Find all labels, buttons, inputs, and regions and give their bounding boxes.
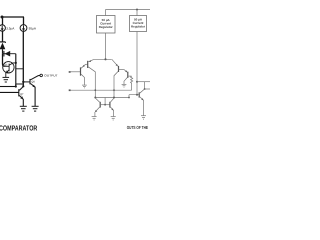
transistor Q3 collector drop <box>114 72 118 98</box>
svg-text:Q7: Q7 <box>20 93 24 96</box>
transistor Q7 <box>19 87 24 107</box>
transistor Q1 emitter <box>81 64 86 68</box>
wire link to CS2 node <box>16 84 23 87</box>
wire CS2 drop <box>23 17 25 25</box>
wire emitter node horizontal <box>94 58 112 60</box>
ground (Q10) <box>111 117 116 120</box>
ground (Q11) <box>141 116 146 119</box>
node dot mirror left <box>94 97 96 99</box>
transistor Q5 emitter diag <box>124 69 128 72</box>
transistor Q11 (output side) <box>139 89 144 116</box>
transistor Q2 collector drop <box>88 67 95 98</box>
ground (Q6) <box>92 117 97 120</box>
terminal OUTPUT circle <box>40 74 43 77</box>
wire collector return <box>144 82 146 89</box>
svg-text:OUTPUT: OUTPUT <box>44 74 58 78</box>
wire CS2 to lower node <box>22 32 24 88</box>
node dot IN- / Q3 collector <box>113 89 115 91</box>
wire right rail out <box>137 81 150 83</box>
ground (under Q8) <box>32 106 39 111</box>
current source I2 (95uA) <box>20 25 27 32</box>
wire base feed from left edge <box>0 86 16 88</box>
terminal IN- blob <box>69 89 71 91</box>
wire box1 bottom stem <box>105 33 107 59</box>
transistor Q4 (with circle envelope) <box>3 62 16 77</box>
wire box2 top stem <box>136 10 138 16</box>
Q3 emitter arrowhead <box>116 64 118 66</box>
transistor Q8 <box>30 75 40 106</box>
svg-text:95µA: 95µA <box>29 27 37 31</box>
node dot on mid vertical <box>15 62 17 64</box>
resistor R1 stub top <box>128 75 131 77</box>
svg-text:COMPARATOR: COMPARATOR <box>0 123 38 132</box>
current source I1 (3.5uA) <box>0 25 5 31</box>
node dot mirror base tie <box>104 104 106 106</box>
transistor Q5 collector to ground <box>124 77 127 84</box>
transistor Q6 (mirror left, diode connected) <box>95 98 110 117</box>
regulator box U2 <box>130 16 147 32</box>
Q6 emitter arrowhead <box>95 110 97 112</box>
wire mirror rail <box>95 95 139 98</box>
node dot IN- / Q2 collector <box>94 89 96 91</box>
node dot mirror right <box>113 97 115 99</box>
ground (under Q7) <box>20 106 27 111</box>
transistor Q2 emitter <box>88 59 94 61</box>
wire top rail V+ <box>1 16 25 18</box>
wire IN+ lead <box>70 71 81 73</box>
transistor Q1 collector to ground <box>81 74 84 85</box>
wire IN- lead long <box>71 89 132 91</box>
ground (under Q4 emitter) <box>3 77 10 82</box>
node dot T_o base <box>136 94 138 96</box>
node dot top rail <box>136 9 138 11</box>
wire box2 bottom stem <box>136 32 138 95</box>
wire box1 top stem <box>105 10 107 16</box>
ground (Q5 collector) <box>122 84 127 87</box>
Q2 emitter arrowhead <box>89 60 91 62</box>
wire left vertical from rail <box>2 17 4 25</box>
node dot collector return <box>144 88 146 90</box>
wire mid vertical (Q4 collector bus) <box>15 54 17 87</box>
transistor Q3 base bar <box>118 66 120 72</box>
node CS2 Q7-collector dot <box>22 85 24 87</box>
node dot mid-vertical bottom <box>15 85 17 87</box>
wire base feed Q7 from left edge <box>0 91 19 93</box>
svg-text:Regulator: Regulator <box>99 25 114 29</box>
Q10 emitter arrowhead <box>111 108 113 110</box>
Q5 emitter arrowhead <box>125 70 127 72</box>
svg-text:Regulator: Regulator <box>131 25 146 29</box>
svg-text:OUTS OF THE: OUTS OF THE <box>127 125 148 130</box>
resistor R1 zigzag <box>131 76 133 90</box>
svg-text:3.5µA: 3.5µA <box>6 27 15 31</box>
node dot mirror corner <box>128 97 130 99</box>
node dot current source <box>104 58 106 60</box>
Q1 emitter arrowhead <box>83 65 85 67</box>
wire top rail <box>106 9 151 11</box>
ground (Q1 collector) <box>82 85 87 88</box>
zener diode D1 <box>0 41 5 54</box>
transistor Q3 base lead <box>119 68 124 70</box>
transistor Q1 base bar <box>80 67 82 75</box>
Q11 emitter arrowhead <box>141 98 143 100</box>
transistor Q5 base bar <box>127 72 129 78</box>
terminal IN+ blob <box>69 71 71 73</box>
transistor Q3 emitter diag from node <box>112 59 118 66</box>
wire cross link <box>16 68 23 70</box>
wire left vertical zener to Q4 base <box>3 54 5 67</box>
diode D2 (horizontal, pointing left) <box>3 51 16 57</box>
node rail-left junction dot <box>1 16 4 19</box>
transistor Q10 (mirror right) <box>110 98 114 116</box>
node dot box2 stem / right rail <box>136 81 138 83</box>
wire left vertical below CS1 <box>2 31 4 42</box>
transistor Q2 base bar <box>87 61 89 68</box>
wire Q8 base <box>23 81 30 83</box>
regulator box U1 <box>97 16 116 34</box>
wire Q1->Q2 base <box>86 63 88 65</box>
node CS2 Q8-base dot <box>22 81 24 83</box>
wire out stub <box>145 88 150 90</box>
